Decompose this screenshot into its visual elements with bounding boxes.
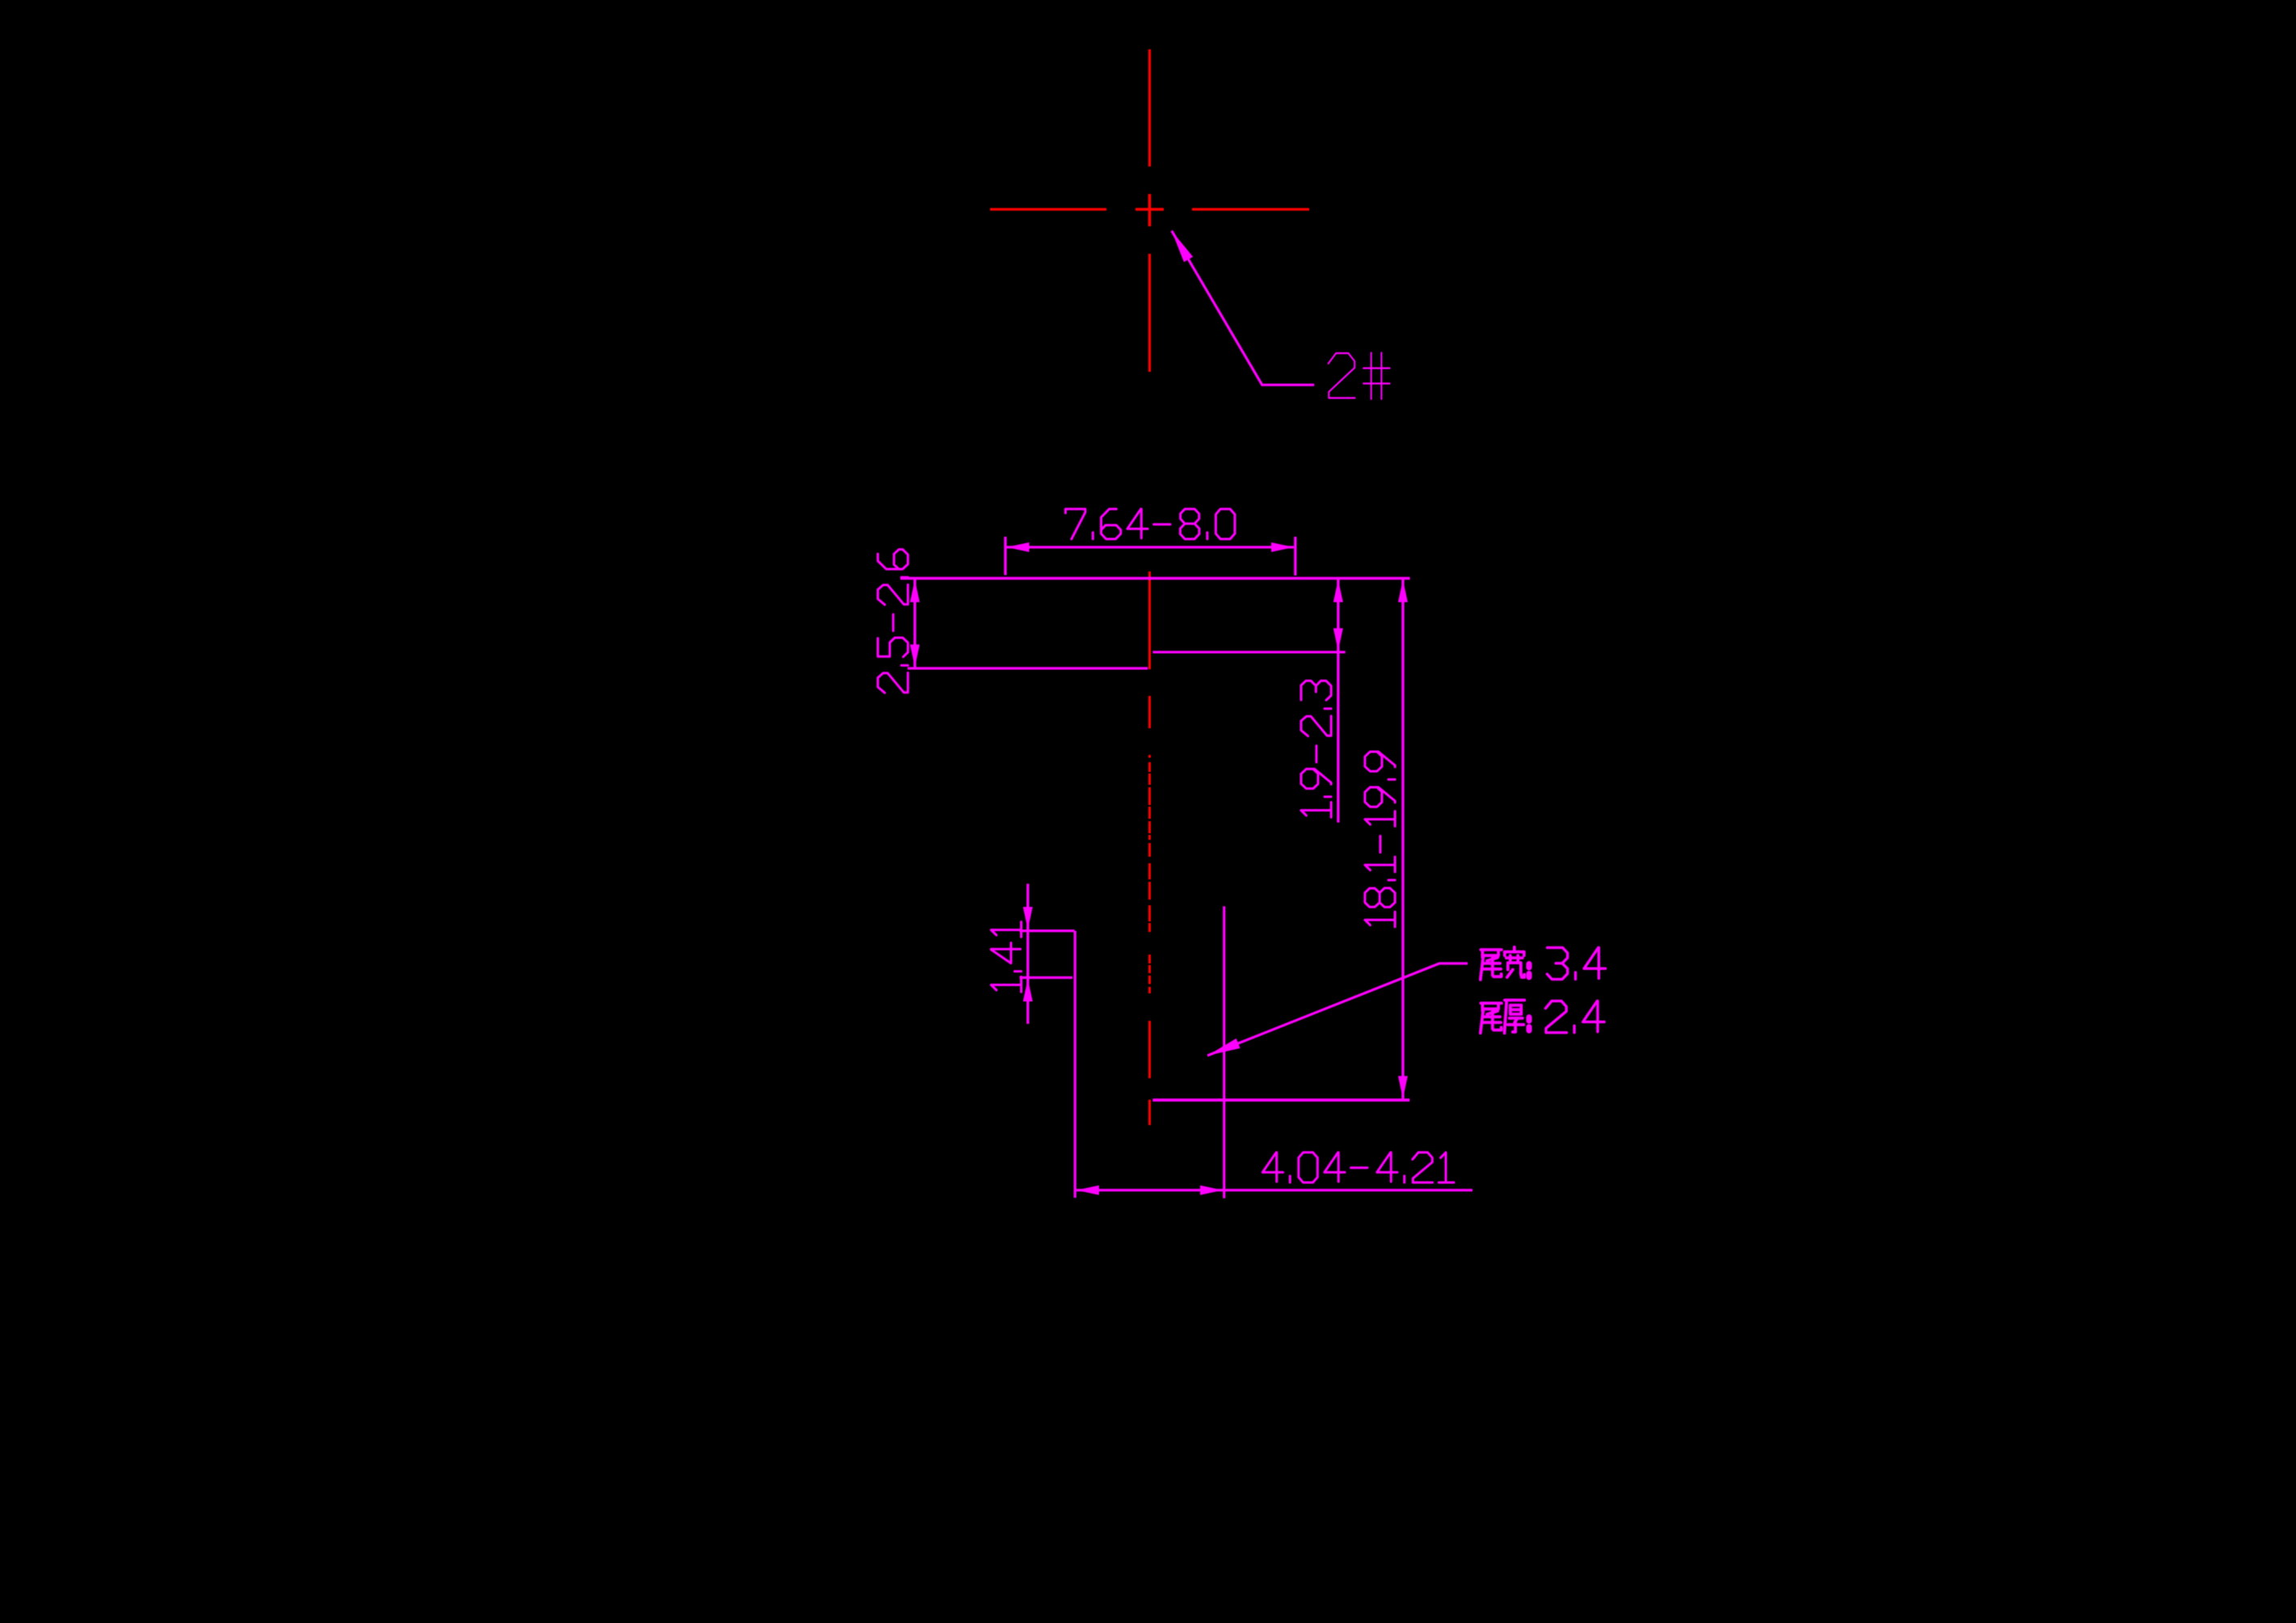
note leader arrow — [1207, 1039, 1241, 1056]
center mark cross — [1148, 194, 1152, 226]
part centerline (dashed red, lower) — [1148, 571, 1151, 669]
dim 7.64-8.0 extension line right — [1294, 537, 1296, 575]
dim 2.5-2.6 dimension line — [913, 580, 916, 667]
note leader line — [1207, 963, 1468, 1056]
note text line 1: tail width 3.4 — [1481, 950, 1502, 980]
dim text 1.41 (rotated) — [991, 922, 1021, 993]
dim 18.1-19.9 dimension line — [1401, 580, 1404, 1098]
dim 4.04-4.21 dimension line — [1076, 1189, 1472, 1191]
leader arrow 2# — [1172, 231, 1193, 263]
part top edge (line B) — [900, 577, 1410, 580]
dim 1.41 arrows — [1023, 907, 1033, 930]
head bottom edge left (line C) — [908, 667, 1148, 669]
dim 1.41 dimension line — [1026, 883, 1029, 1023]
step lower edge — [1020, 976, 1073, 979]
leader line 2# — [1172, 231, 1314, 386]
dim 18.1-19.9 arrows — [1398, 580, 1408, 602]
part bottom edge (line H) — [1152, 1098, 1409, 1102]
dim text 1.9-2.3 (rotated) — [1301, 681, 1331, 817]
tail vertical / right extension line — [1223, 906, 1225, 1198]
dim 7.64-8.0 arrows — [1007, 542, 1030, 552]
centerline vertical (crosshair) — [1148, 49, 1151, 167]
dim text 4.04-4.21 — [1262, 1153, 1454, 1182]
dim 1.9-2.3 dimension line — [1337, 580, 1339, 823]
label text 2# — [1329, 352, 1390, 398]
dim 2.5-2.6 arrows — [910, 580, 920, 602]
step top edge — [1020, 930, 1075, 932]
dim text 7.64-8.0 — [1065, 509, 1235, 539]
dim 7.64-8.0 dimension line — [1007, 546, 1295, 548]
dim text 18.1-19.9 (rotated) — [1365, 752, 1395, 927]
step vertical / left extension line — [1074, 931, 1076, 1198]
note text line 2: tail thickness 2.4 — [1481, 1003, 1502, 1033]
centerline horizontal (crosshair) — [990, 208, 1106, 210]
dim text 2.5-2.6 (rotated) — [878, 550, 908, 693]
dim 7.64-8.0 extension line left — [1004, 537, 1006, 575]
dim 1.9-2.3 arrows — [1333, 580, 1343, 602]
dim 4.04-4.21 arrows — [1076, 1186, 1099, 1195]
head bottom edge right (line D) — [1152, 651, 1345, 653]
